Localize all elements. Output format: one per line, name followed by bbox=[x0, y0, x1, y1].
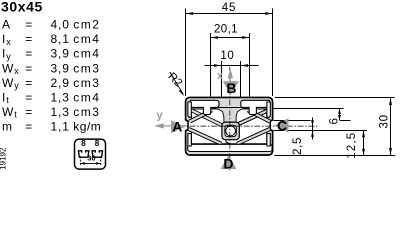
ext line 20,1 left bbox=[210, 33, 212, 97]
svg-text:m: m bbox=[2, 120, 13, 134]
svg-text:10: 10 bbox=[220, 50, 234, 62]
svg-text:4,0: 4,0 bbox=[51, 18, 70, 32]
right ext line E2 bore center bbox=[274, 130, 368, 132]
vertical centerline bbox=[229, 67, 231, 171]
svg-text:=: = bbox=[25, 18, 33, 32]
svg-text:D: D bbox=[223, 155, 233, 171]
right ext line top E4 bbox=[275, 97, 395, 99]
svg-text:cm2: cm2 bbox=[73, 18, 100, 32]
svg-text:2,5: 2,5 bbox=[292, 137, 304, 155]
svg-text:cm3: cm3 bbox=[73, 105, 100, 119]
svg-text:x: x bbox=[217, 70, 224, 82]
face label B bbox=[223, 81, 239, 95]
svg-text:cm3: cm3 bbox=[73, 76, 100, 90]
web W3 left lower diagonal bbox=[189, 129, 222, 144]
top-left chamber void bbox=[190, 100, 219, 114]
ext line 45 left bbox=[185, 9, 187, 97]
svg-text:=: = bbox=[25, 47, 33, 61]
svg-text:cm4: cm4 bbox=[73, 90, 100, 104]
face label A bbox=[171, 120, 185, 133]
dim 20,1 bbox=[211, 37, 250, 39]
dim 10 outside arrows bbox=[205, 65, 259, 67]
svg-text:y: y bbox=[157, 110, 164, 122]
svg-text:30: 30 bbox=[87, 153, 95, 162]
dim 45 bbox=[186, 13, 273, 15]
web W1 right upper diagonal bbox=[235, 110, 269, 126]
dim 30 bbox=[390, 98, 392, 156]
slot icon box bbox=[75, 139, 106, 169]
core hole square bbox=[225, 125, 236, 136]
svg-text:1,3: 1,3 bbox=[51, 90, 70, 104]
right ext line bottom E3 bbox=[275, 155, 396, 157]
icon slot glyph left bbox=[78, 151, 88, 157]
svg-text:19192: 19192 bbox=[0, 147, 8, 170]
ext line 10 left bbox=[221, 61, 223, 97]
web W1 left upper diagonal bbox=[190, 110, 223, 126]
property table bbox=[2, 18, 101, 134]
top-left side leg void bbox=[188, 102, 191, 117]
svg-text:=: = bbox=[25, 90, 33, 104]
web W2 left anti diagonal bbox=[190, 110, 212, 121]
web W2 right anti diagonal bbox=[248, 110, 270, 121]
bottom-right side leg void bbox=[267, 134, 270, 146]
icon dashed extension left bbox=[79, 156, 81, 166]
svg-text:12,5: 12,5 bbox=[346, 132, 358, 159]
face label D bbox=[221, 155, 237, 169]
dim 12,5 bbox=[363, 131, 365, 156]
right ext line E1 notch top bbox=[274, 120, 311, 122]
svg-text:kg/m: kg/m bbox=[73, 120, 101, 134]
web W3 right lower diagonal bbox=[237, 129, 270, 144]
ext line 10 right bbox=[240, 61, 242, 97]
face label C bbox=[274, 118, 289, 133]
svg-text:8,1: 8,1 bbox=[51, 32, 70, 46]
svg-text:cm3: cm3 bbox=[73, 61, 100, 75]
core hole circle bbox=[226, 126, 236, 136]
icon slot glyph right bbox=[92, 151, 102, 157]
top-right chamber void bbox=[241, 100, 270, 114]
svg-text:45: 45 bbox=[222, 2, 236, 14]
icon dashed extension right bbox=[100, 156, 102, 166]
ext line 20,1 right bbox=[249, 33, 251, 97]
svg-text:cm4: cm4 bbox=[73, 32, 100, 46]
svg-text:1,1: 1,1 bbox=[51, 120, 70, 134]
svg-text:C: C bbox=[277, 117, 287, 133]
svg-text:B: B bbox=[226, 80, 236, 96]
R2 leader bbox=[170, 72, 183, 94]
svg-text:1,3: 1,3 bbox=[51, 105, 70, 119]
x axis arrow gray bbox=[229, 78, 231, 95]
svg-text:3,9: 3,9 bbox=[51, 61, 70, 75]
svg-text:=: = bbox=[25, 120, 33, 134]
svg-text:2,9: 2,9 bbox=[51, 76, 70, 90]
central boss bbox=[222, 122, 239, 140]
horizontal centerline bbox=[168, 125, 318, 127]
svg-text:8: 8 bbox=[81, 139, 86, 148]
profile outer body bbox=[186, 97, 273, 155]
svg-text:30x45: 30x45 bbox=[1, 0, 43, 15]
dim 2,5 bbox=[312, 118, 314, 140]
bottom channel void bbox=[188, 144, 272, 151]
icon dim arrows bbox=[80, 162, 85, 165]
right ext line Ea chamber bottom bbox=[274, 108, 344, 110]
svg-text:A: A bbox=[2, 18, 11, 32]
svg-text:A: A bbox=[172, 119, 182, 135]
svg-text:=: = bbox=[25, 76, 33, 90]
svg-text:8: 8 bbox=[95, 139, 100, 148]
svg-text:6: 6 bbox=[329, 118, 341, 124]
mid-left big void bbox=[188, 109, 234, 144]
svg-text:=: = bbox=[25, 105, 33, 119]
top-right side leg void bbox=[267, 102, 270, 117]
dim 6 bbox=[339, 109, 341, 121]
svg-text:3,9: 3,9 bbox=[51, 47, 70, 61]
mid-right big void bbox=[226, 109, 270, 144]
svg-text:=: = bbox=[25, 32, 33, 46]
y axis arrow gray bbox=[164, 125, 187, 127]
svg-text:=: = bbox=[25, 61, 33, 75]
ext line 45 right bbox=[272, 9, 274, 97]
central funnel web bbox=[211, 108, 249, 123]
svg-text:30: 30 bbox=[378, 114, 390, 128]
svg-text:20,1: 20,1 bbox=[214, 23, 238, 35]
svg-text:cm4: cm4 bbox=[73, 47, 100, 61]
bottom-left side leg void bbox=[188, 134, 191, 146]
